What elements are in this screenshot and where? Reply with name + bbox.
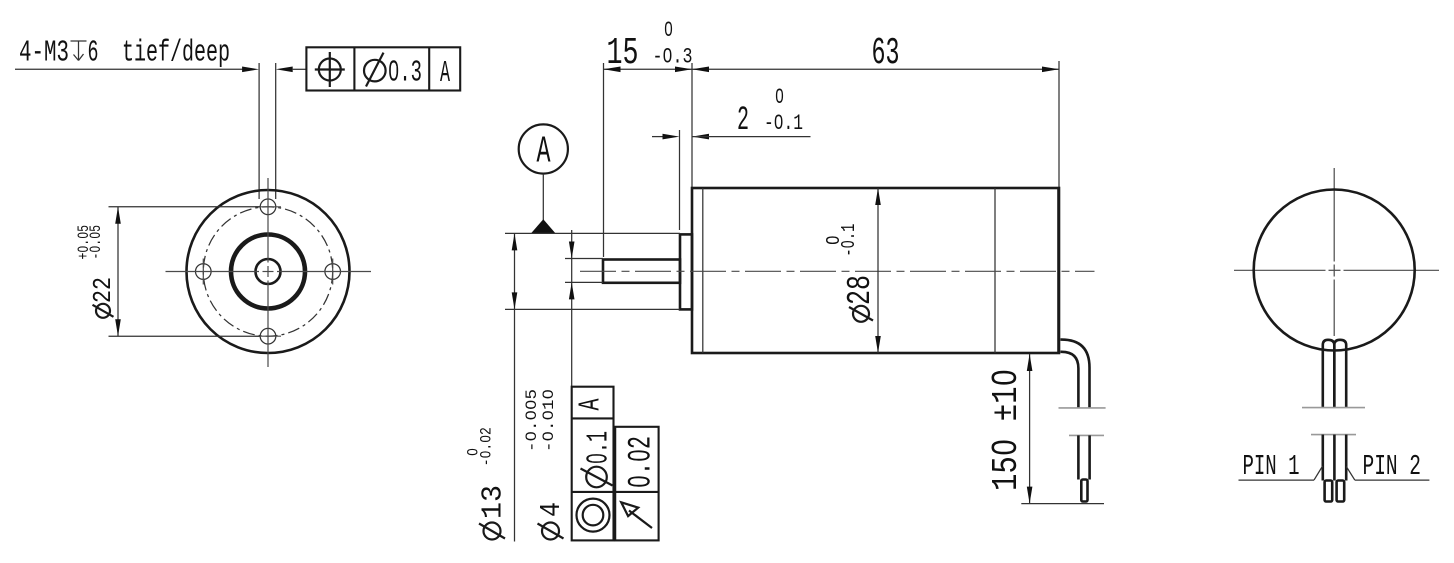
PIN 2 leader diagonal: [1346, 467, 1355, 481]
label Ø4 rotated: [523, 389, 568, 540]
svg-text:4: 4: [535, 502, 568, 517]
dim 15 arrow right: [675, 67, 692, 73]
dim 2 arrow left: [663, 134, 680, 140]
wire segment 2 left: [1077, 435, 1080, 479]
dim Ø13 arrow down: [512, 292, 518, 309]
feature control frame position Ø0.3 A: [306, 47, 460, 90]
rear circle: [1254, 190, 1415, 351]
body right edge thick: [1057, 188, 1060, 353]
dim 2 line right: [692, 136, 811, 138]
body inner line front: [702, 188, 704, 353]
dim 15 extension right (front face): [691, 63, 693, 187]
PIN 2 underline: [1355, 479, 1430, 481]
bolt circle dash-dot: [203, 207, 332, 336]
dim Ø22 arrow up: [115, 207, 121, 224]
svg-text:-0.3: -0.3: [653, 44, 693, 70]
rear wire right: [1334, 340, 1346, 408]
datum triangle filled: [531, 219, 556, 233]
dim Ø13 extension top: [505, 232, 680, 234]
rear horizontal centerline: [1234, 269, 1439, 271]
svg-text:tief/deep: tief/deep: [122, 36, 230, 71]
dim 15 line: [604, 68, 693, 70]
dim 15 extension left (shaft tip): [603, 63, 605, 257]
datum A balloon circle: [519, 124, 568, 173]
arrow to frame: [276, 67, 293, 73]
hole tick bottom: [255, 335, 281, 337]
shaft rectangle: [603, 260, 680, 283]
rear wire seg2 right edge: [1345, 435, 1348, 481]
dim Ø28 arrow up: [875, 188, 881, 205]
rear wire left: [1323, 340, 1335, 408]
svg-text:-0.005: -0.005: [523, 389, 541, 452]
svg-text:-0.05: -0.05: [87, 225, 105, 260]
leader arrow right: [242, 67, 259, 73]
hole tick top: [255, 206, 281, 208]
flange outer circle: [187, 190, 350, 353]
dim 63 line: [692, 68, 1059, 70]
dim Ø28 line: [877, 188, 879, 353]
box1 datum A rotated: [574, 398, 609, 410]
dim Ø22 line: [117, 207, 119, 336]
dim 150 bottom extension: [1021, 503, 1104, 505]
dim 63 extension right: [1058, 61, 1060, 187]
svg-text:PIN 2: PIN 2: [1363, 450, 1422, 483]
note 4-M3 depth 6 tief/deep: [19, 36, 230, 71]
dim 2 left tail: [652, 136, 663, 138]
dim Ø4 extension top: [565, 258, 603, 260]
leader line from note: [15, 68, 243, 70]
flange vertical centerline: [267, 178, 269, 367]
line to frame: [292, 68, 306, 70]
svg-text:A: A: [574, 398, 609, 410]
datum leader: [542, 174, 544, 220]
svg-text:A: A: [440, 56, 450, 91]
concentricity symbol: [577, 499, 610, 532]
dim Ø22 extension bottom: [109, 335, 261, 337]
dim 150 line: [1029, 354, 1031, 504]
svg-text:13: 13: [477, 485, 510, 519]
dim Ø13 extension bottom: [505, 308, 680, 310]
dim 15 arrow left: [604, 67, 621, 73]
boss circle thick: [231, 235, 305, 309]
label Ø28 rotated: [823, 224, 880, 322]
svg-text:4-M3: 4-M3: [19, 36, 69, 71]
dim Ø4 arrow bottom (pointing up): [569, 282, 575, 299]
wire break line 1: [1059, 407, 1106, 409]
svg-text:15: 15: [607, 32, 639, 75]
shaft circle: [256, 259, 281, 284]
phi symbol of 0.3: [364, 53, 386, 87]
rear vertical centerline: [1333, 168, 1335, 336]
dim Ø28 arrow down: [875, 336, 881, 353]
svg-text:-0.010: -0.010: [540, 389, 558, 452]
dim Ø4 line: [571, 230, 573, 387]
label 150 ±10 rotated: [986, 369, 1027, 491]
motor body rectangle: [692, 188, 1059, 353]
svg-text:22: 22: [88, 277, 118, 303]
zero dot covers: [81, 25, 1009, 484]
dim 150 arrow up: [1027, 354, 1033, 371]
position symbol: [315, 52, 345, 87]
dim Ø22 extension top: [109, 206, 261, 208]
svg-text:63: 63: [872, 32, 900, 75]
svg-text:-0.1: -0.1: [838, 224, 860, 257]
svg-text:28: 28: [842, 275, 880, 305]
svg-text:2: 2: [737, 102, 749, 140]
dim 2 arrow right: [692, 134, 709, 140]
main centerline: [580, 270, 1095, 272]
label Ø13 rotated: [465, 427, 510, 539]
extension line hole right: [275, 63, 277, 199]
rear wire seg2 left edge: [1322, 435, 1325, 481]
rear break line 1: [1302, 407, 1365, 409]
hole left: [196, 264, 212, 280]
svg-text:PIN 1: PIN 1: [1243, 450, 1300, 483]
front boss rectangle: [680, 234, 692, 309]
frame box1 concentricity: [572, 387, 614, 541]
dim 150 arrow down: [1027, 487, 1033, 504]
rear wire tip right: [1337, 481, 1345, 502]
PIN 1 leader diagonal: [1314, 466, 1323, 480]
dim 63 arrow left: [692, 67, 709, 73]
dim Ø22 arrow down: [115, 319, 121, 336]
wire break line 2: [1069, 434, 1104, 436]
flange horizontal centerline: [166, 271, 372, 273]
rear wire seg2 middle: [1333, 435, 1336, 481]
wire tip: [1081, 480, 1087, 502]
lead wire inner curve: [1061, 352, 1079, 408]
label Ø22 rotated: [75, 225, 118, 318]
wire segment 2 right: [1088, 435, 1091, 479]
box2 value 0.02 rotated: [623, 436, 660, 488]
hole tick right: [332, 259, 334, 285]
dim Ø13 line: [514, 233, 516, 541]
dim Ø4 extension bottom: [565, 281, 603, 283]
dim 63 arrow right: [1042, 67, 1059, 73]
frame box2 runout: [615, 427, 658, 541]
hole top: [260, 199, 276, 215]
svg-text:A: A: [537, 131, 551, 174]
hole tick left: [202, 259, 204, 285]
body inner line rear: [994, 188, 996, 353]
runout symbol: [621, 502, 652, 528]
extension line hole left: [258, 63, 260, 199]
PIN 1 underline: [1239, 479, 1315, 481]
box1 value Ø0.1 rotated: [581, 431, 617, 487]
svg-text:-0.02: -0.02: [478, 427, 496, 466]
svg-text:150 ±10: 150 ±10: [986, 369, 1027, 491]
dim Ø13 arrow up: [512, 233, 518, 250]
hole bottom: [260, 328, 276, 344]
rear wire tip left: [1325, 481, 1333, 502]
svg-text:6: 6: [88, 36, 99, 71]
rear break line 2: [1311, 434, 1356, 436]
hole right: [325, 264, 341, 280]
depth symbol: [71, 41, 87, 61]
lead wire outer curve: [1061, 340, 1090, 408]
dim 2 extension (boss face): [679, 130, 681, 230]
dim Ø4 arrow top (pointing down): [569, 242, 575, 259]
svg-text:-0.1: -0.1: [764, 110, 803, 136]
